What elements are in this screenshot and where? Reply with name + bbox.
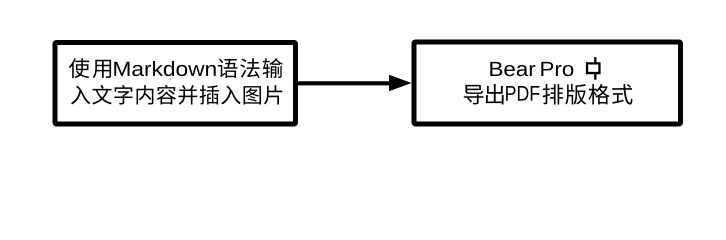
text b2l1-lat2 (541, 62, 573, 76)
text b1l1-cjk2 (218, 58, 283, 78)
text b1l1-lat (114, 61, 215, 76)
arrow head (389, 75, 412, 91)
text b1l2 (71, 85, 282, 105)
flow diagram (0, 0, 726, 160)
text b2l1-lat1 (490, 62, 535, 76)
text b2l2-cjk2 (543, 84, 633, 105)
text b2l2-cjk1 (464, 84, 504, 104)
text b2l2-lat (506, 86, 539, 101)
arrow shaft (298, 81, 391, 85)
box: input markdown (55, 43, 296, 125)
box: bear pro export (414, 42, 681, 124)
text b1l1-cjk1 (69, 58, 111, 78)
text b2l1-cjk (586, 57, 601, 80)
